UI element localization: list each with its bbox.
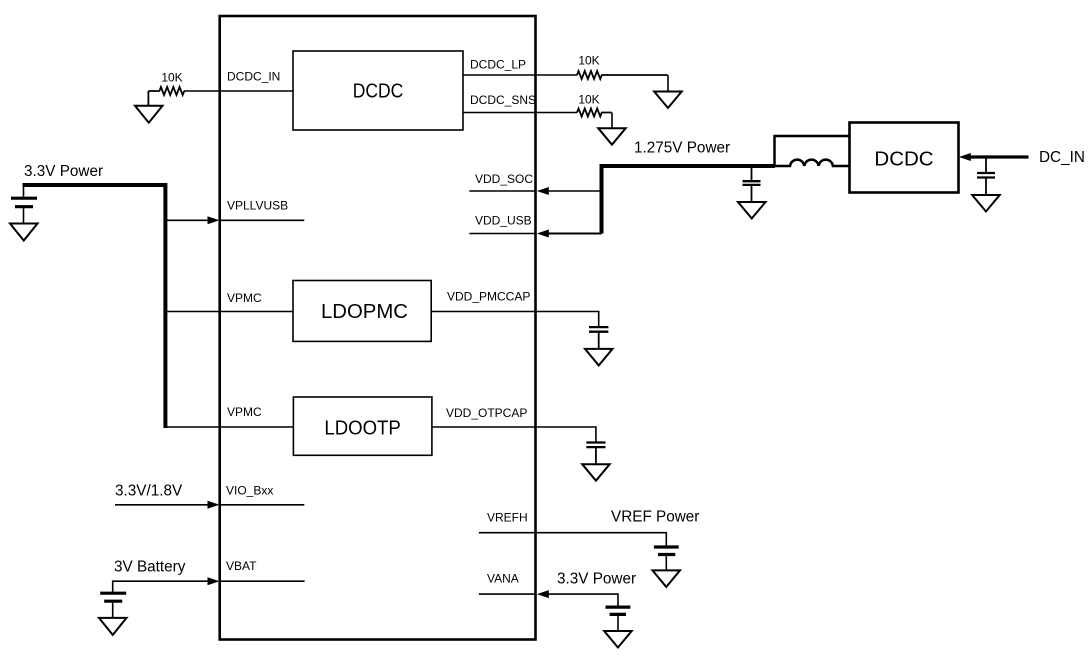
capacitor C4 (OTPCAP) — [586, 441, 605, 443]
ground (C3) — [585, 349, 613, 366]
DCDC block U2 (external) — [850, 123, 959, 193]
pin line VBAT — [220, 580, 305, 582]
wire DC_IN with arrow — [969, 155, 1029, 158]
svg-text:DCDC_LP: DCDC_LP — [470, 58, 526, 72]
wire DCDC_IN — [184, 90, 293, 92]
svg-text:10K: 10K — [578, 54, 599, 68]
capacitor C1 on 1.275V rail — [751, 166, 753, 180]
wire DCDC_SNS — [463, 112, 577, 114]
battery BT1 (3.3V) — [23, 185, 25, 197]
capacitor C3 (PMCCAP) — [589, 326, 608, 328]
svg-text:3V Battery: 3V Battery — [114, 559, 186, 576]
inductor L1 — [775, 160, 850, 166]
wire bypass loop over inductor — [775, 136, 850, 166]
wire VDD_PMCCAP — [431, 312, 599, 327]
svg-text:VDD_PMCCAP: VDD_PMCCAP — [447, 290, 530, 304]
svg-text:VBAT: VBAT — [226, 559, 257, 573]
svg-text:LDOPMC: LDOPMC — [321, 301, 408, 323]
wire 3V battery to VBAT with arrow — [113, 581, 209, 592]
svg-text:VIO_Bxx: VIO_Bxx — [226, 484, 273, 498]
wire 3.3V power rail (thick) — [23, 185, 166, 428]
ground (BT3) — [653, 570, 681, 587]
wire 3.3V to VPMC (LDOOTP) — [165, 426, 293, 428]
wire 3.3V to VPMC (LDOPMC) — [165, 311, 293, 313]
svg-text:VREFH: VREFH — [487, 510, 528, 524]
wire R1 to ground — [147, 91, 149, 106]
wire rail to VDD_SOC with arrow — [547, 190, 602, 192]
svg-text:10K: 10K — [161, 71, 182, 85]
wire DCDC_LP — [463, 74, 577, 76]
pin line VDD_SOC — [469, 190, 536, 192]
wire R3 to ground corner — [611, 113, 613, 129]
ground (BT1) — [10, 224, 38, 241]
svg-text:VPMC: VPMC — [227, 405, 262, 419]
ground (R2) — [654, 92, 682, 109]
svg-text:VDD_USB: VDD_USB — [475, 213, 532, 227]
ground (C4) — [582, 464, 610, 481]
svg-text:VDD_SOC: VDD_SOC — [475, 172, 533, 186]
battery BT2 (3V) — [100, 592, 126, 595]
svg-text:10K: 10K — [578, 92, 599, 106]
capacitor C2 on DC_IN — [985, 157, 987, 172]
ground (C2) — [972, 195, 1000, 212]
svg-text:DCDC: DCDC — [353, 81, 404, 103]
svg-text:1.275V Power: 1.275V Power — [634, 139, 730, 156]
LDOPMC block — [293, 281, 431, 342]
svg-text:VDD_OTPCAP: VDD_OTPCAP — [446, 406, 527, 420]
wire VDD_OTPCAP — [432, 427, 596, 442]
pin line VDD_USB — [469, 233, 536, 235]
svg-text:DCDC_IN: DCDC_IN — [227, 69, 280, 83]
LDOOTP block — [293, 397, 432, 455]
svg-text:VANA: VANA — [487, 572, 519, 586]
svg-text:DC_IN: DC_IN — [1039, 149, 1085, 166]
ground (left of R1) — [135, 106, 163, 123]
svg-text:VPLLVUSB: VPLLVUSB — [227, 199, 288, 213]
svg-text:VREF Power: VREF Power — [611, 509, 699, 526]
svg-text:3.3V Power: 3.3V Power — [24, 163, 103, 180]
main chip boundary U1 — [220, 16, 536, 640]
wire VREFH — [479, 533, 666, 546]
DCDC block U1a — [293, 51, 463, 130]
wire 3.3V to VPLLVUSB with arrow — [165, 219, 209, 221]
wire 1.275V power rail (thick) — [602, 166, 776, 234]
battery BT3 (VREF) — [654, 545, 679, 548]
svg-text:VPMC: VPMC — [227, 291, 262, 305]
wire rail to VDD_USB with arrow — [547, 233, 602, 235]
ground (BT4) — [604, 631, 632, 648]
wire R2 to ground corner — [667, 75, 669, 92]
svg-text:DCDC: DCDC — [874, 148, 933, 171]
svg-text:3.3V Power: 3.3V Power — [557, 571, 636, 588]
ground (BT2) — [99, 618, 127, 635]
pin line VANA — [479, 593, 536, 595]
ground (C1) — [738, 202, 766, 219]
resistor R1 10K — [148, 87, 184, 95]
pin line VIO_Bxx — [220, 504, 305, 506]
ground (R3) — [598, 128, 626, 145]
battery BT4 (VANA 3.3V) — [606, 605, 631, 608]
svg-text:DCDC_SNS: DCDC_SNS — [470, 93, 536, 107]
resistor R3 10K — [577, 109, 612, 117]
pin line VPLLVUSB — [220, 219, 305, 221]
wire 3.3V/1.8V to VIO_Bxx with arrow — [115, 504, 209, 506]
svg-text:LDOOTP: LDOOTP — [324, 418, 401, 440]
wire 3.3V to VANA with arrow — [547, 594, 618, 605]
svg-text:3.3V/1.8V: 3.3V/1.8V — [115, 482, 183, 499]
resistor R2 10K — [577, 71, 668, 79]
